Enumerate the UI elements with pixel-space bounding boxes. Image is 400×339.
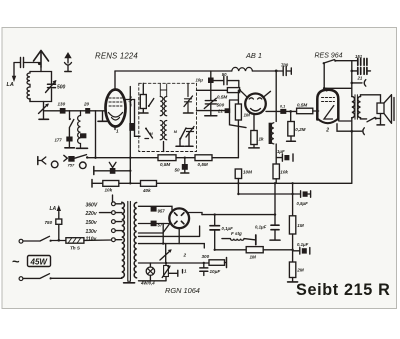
svg-text:500: 500 [57, 85, 66, 91]
svg-text:500: 500 [217, 103, 225, 108]
svg-text:AB 1: AB 1 [245, 51, 262, 60]
svg-text:RENS 1224: RENS 1224 [95, 52, 138, 61]
svg-text:10M: 10M [243, 170, 252, 175]
svg-text:2M: 2M [296, 267, 304, 272]
svg-text:700: 700 [281, 62, 289, 67]
svg-text:1μF: 1μF [277, 149, 285, 154]
svg-text:LA: LA [50, 206, 57, 212]
svg-text:220v: 220v [85, 211, 98, 217]
svg-text:1: 1 [116, 129, 119, 134]
svg-text:110v: 110v [86, 236, 98, 242]
svg-text:40k: 40k [142, 188, 151, 193]
svg-text:~: ~ [12, 254, 20, 269]
svg-text:177: 177 [55, 137, 63, 142]
svg-text:10μF: 10μF [210, 269, 221, 274]
svg-text:150v: 150v [86, 220, 98, 226]
svg-text:360V: 360V [86, 203, 98, 209]
svg-text:0,5μF: 0,5μF [297, 201, 309, 206]
svg-text:21: 21 [217, 108, 223, 113]
svg-text:Th S: Th S [70, 246, 81, 251]
svg-text:45W: 45W [30, 257, 49, 266]
svg-text:0,5M: 0,5M [217, 94, 227, 99]
svg-text:Seibt 215 R: Seibt 215 R [296, 281, 390, 299]
svg-text:0,5M: 0,5M [297, 102, 307, 107]
svg-text:151: 151 [355, 54, 363, 59]
svg-text:0,2M: 0,2M [295, 127, 305, 132]
svg-text:750: 750 [45, 220, 53, 225]
svg-text:2: 2 [183, 253, 187, 258]
svg-text:0,1: 0,1 [280, 105, 285, 109]
svg-text:130v: 130v [86, 229, 98, 235]
svg-text:2: 2 [325, 128, 329, 134]
svg-text:F stg: F stg [231, 231, 242, 236]
svg-text:LA: LA [7, 82, 14, 88]
svg-text:300: 300 [202, 254, 210, 259]
svg-text:1: 1 [184, 268, 187, 273]
svg-text:21: 21 [357, 76, 363, 81]
svg-text:RES 964: RES 964 [315, 53, 343, 60]
svg-text:1M: 1M [244, 113, 251, 118]
svg-text:4W/0,4: 4W/0,4 [140, 281, 155, 286]
svg-text:10k: 10k [280, 170, 288, 175]
svg-text:0,5M: 0,5M [160, 162, 170, 167]
svg-text:1k: 1k [259, 137, 265, 142]
svg-text:1M: 1M [250, 255, 257, 260]
svg-text:0,5M: 0,5M [198, 162, 208, 167]
svg-text:1M: 1M [297, 223, 304, 228]
svg-text:20: 20 [83, 101, 90, 106]
svg-text:50: 50 [175, 168, 181, 173]
svg-text:130: 130 [58, 101, 66, 106]
svg-text:0,1μF: 0,1μF [128, 96, 133, 107]
svg-text:RGN 1064: RGN 1064 [165, 286, 200, 295]
svg-text:50: 50 [222, 72, 227, 77]
svg-text:10μ: 10μ [196, 78, 204, 83]
svg-text:57: 57 [158, 222, 163, 227]
svg-text:0,1μF: 0,1μF [297, 242, 309, 247]
svg-text:757: 757 [68, 163, 75, 168]
svg-text:0,1μF: 0,1μF [255, 225, 267, 230]
svg-text:957: 957 [158, 209, 166, 214]
svg-text:10k: 10k [105, 188, 113, 193]
